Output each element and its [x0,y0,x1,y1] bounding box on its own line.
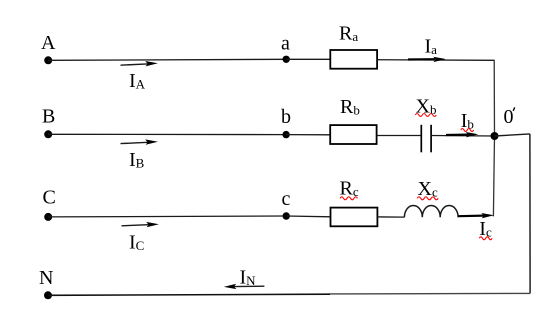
label I_b [461,110,474,132]
resistor Ra [330,50,377,69]
label node 0' [504,106,515,128]
label I_A [129,70,146,92]
current arrow I_a [408,57,446,62]
capacitor Xb right plate [430,125,432,153]
svg-text:Rb: Rb [340,96,360,118]
current arrow I_b [446,132,478,137]
node label a [281,33,290,55]
node label b [281,106,291,128]
phase label B [42,106,55,128]
spellcheck squiggle under I_c [479,237,492,240]
svg-text:b: b [281,106,291,128]
wire stub: node 0' to right branch [495,134,530,136]
svg-text:0: 0 [504,106,514,128]
inductor Xc coil [404,205,458,217]
node 0' dot [491,132,499,140]
spellcheck squiggle under Rc [340,197,358,200]
node b dot [282,131,289,138]
label I_B [129,149,145,171]
node label c [282,188,291,210]
current arrow I_N (pointing left) [224,284,265,289]
label Rb [340,96,360,118]
label Ra [339,23,358,45]
wire Rb to capacitor Xb [377,135,422,137]
svg-text:B: B [42,106,55,128]
current arrow I_A [121,61,158,66]
svg-text:IA: IA [129,70,146,92]
svg-text:A: A [41,32,56,54]
label Rc [340,178,359,200]
terminal A dot [44,56,52,64]
wire B: terminal B to node b [48,133,286,135]
wire C: terminal C to node c [48,215,286,218]
capacitor Xb left plate [420,125,422,153]
current arrow I_C [122,222,159,227]
terminal N dot [44,291,52,299]
resistor Rb [330,125,376,144]
svg-text:c: c [282,188,291,210]
current arrow I_B [121,139,158,144]
svg-text:Ra: Ra [339,23,358,45]
node a dot [283,56,290,63]
terminal B dot [44,130,52,138]
phase label C [43,186,56,208]
wire b to resistor Rb [286,134,330,136]
neutral wire right segment [330,292,530,295]
spellcheck squiggle under Xb [415,114,436,117]
wire a to resistor Ra [286,58,330,60]
current arrow I_c (wire coil to vertical) [458,213,494,218]
svg-text:IN: IN [240,266,257,288]
svg-text:N: N [39,267,53,289]
svg-text:IB: IB [129,149,145,171]
svg-text:Rc: Rc [340,178,359,200]
label I_c [479,218,492,240]
neutral label N [39,267,53,289]
svg-text:Xc: Xc [418,178,438,200]
phase label A [41,32,56,54]
wire Ra to corner [377,59,494,62]
svg-text:IC: IC [129,232,144,254]
wire Rc to inductor Xc [377,216,404,218]
svg-text:a: a [281,33,290,55]
svg-text:Ia: Ia [425,36,438,58]
label Xc [418,178,438,200]
wire capacitor to node 0' [431,135,494,138]
resistor Rc [331,208,378,227]
neutral wire left segment [48,294,330,295]
wire: right vertical from corner A down to node 0' [493,60,495,136]
node c dot [283,212,290,219]
label Xb [416,96,437,118]
label I_N [240,266,257,288]
wire c to resistor Rc [286,215,330,218]
terminal C dot [44,213,52,221]
spellcheck squiggle under Xc [417,197,438,200]
label I_a [425,36,438,58]
wire: vertical from node 0' down to phase C wire [493,136,494,216]
label I_C [129,232,144,254]
wire: right vertical down to neutral [529,134,531,294]
spellcheck squiggle under I_b [461,129,474,132]
svg-text:C: C [43,186,56,208]
wire A: terminal A to node a [48,59,286,60]
